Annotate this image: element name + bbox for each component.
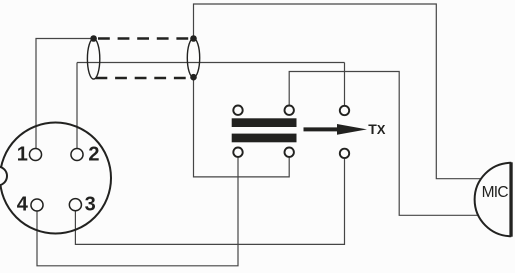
svg-text:MIC: MIC <box>482 184 509 201</box>
wire pin4 to switch bottom-left terminal <box>37 157 238 266</box>
connector X1 (M12 plug face) <box>0 123 111 234</box>
wire pin2 to center conductor <box>76 63 78 150</box>
junction dot shield right bottom <box>190 74 197 81</box>
wire pin1 to shield (up and right) <box>36 39 94 150</box>
PTT terminal bottom-left <box>233 148 242 157</box>
TX line terminal top <box>340 106 349 115</box>
cable shield left end (ellipse) <box>87 39 99 79</box>
PTT terminal top-left <box>233 106 242 115</box>
microphone MIC bar <box>509 162 512 236</box>
microphone MIC body <box>475 163 512 236</box>
wire pin3 to PTT bottom terminal <box>75 159 344 245</box>
pin 4 <box>31 199 43 211</box>
PTT terminal top-right <box>285 106 294 115</box>
wire switch top-right terminal to MIC bottom <box>289 72 485 216</box>
shield dashed run bottom <box>96 77 191 80</box>
PTT switch bar bottom <box>232 134 297 143</box>
connector keying notch <box>0 167 7 186</box>
wire shield bottom to switch bottom-right terminal <box>194 77 290 177</box>
TX arrow <box>304 124 368 135</box>
pin 1 <box>29 148 41 160</box>
svg-text:1: 1 <box>17 144 28 166</box>
svg-text:TX: TX <box>368 121 386 137</box>
svg-text:2: 2 <box>88 144 99 166</box>
TX line terminal bottom <box>340 149 349 158</box>
pin 3 <box>69 199 81 211</box>
PTT switch bar top <box>232 118 297 127</box>
wire shield top to MIC top (up, across, down) <box>194 4 484 179</box>
svg-text:3: 3 <box>85 194 96 216</box>
junction dot shield right top <box>190 35 197 42</box>
shield dashed run top <box>98 37 194 40</box>
wire stub to PTT top terminal <box>344 63 346 106</box>
wire center conductor (cable core to TX switch top-right area) <box>77 62 345 64</box>
pin 2 <box>71 148 83 160</box>
PTT terminal bottom-right <box>285 148 294 157</box>
cable shield right end (ellipse) <box>187 38 199 77</box>
junction dot shield left top <box>90 35 97 42</box>
svg-text:4: 4 <box>17 194 29 216</box>
